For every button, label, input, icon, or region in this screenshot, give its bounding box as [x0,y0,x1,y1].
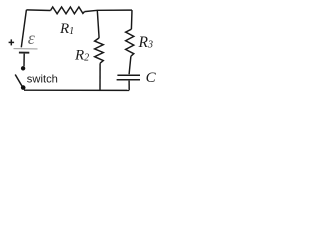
svg-text:C: C [146,70,157,86]
capacitor C top plate [117,74,140,76]
battery EMF short negative plate [19,52,29,54]
wire bottom horizontal [24,89,129,91]
svg-text:switch: switch [27,73,58,85]
node T-junction top (R2 branch tap) [97,10,99,38]
resistor R3 [126,29,134,56]
label + (battery positive sign) [9,39,15,45]
switch top terminal dot [21,66,25,70]
wire top horizontal from R1 to top-right corner [85,10,133,12]
svg-text:ε: ε [28,28,36,48]
resistor R2 [95,38,104,63]
wire capacitor bottom lead [128,81,130,91]
wire battery to switch [23,54,25,67]
resistor R1 [51,7,85,14]
switch blade (open) [15,75,23,89]
wire R3 to capacitor [129,56,131,74]
battery EMF long positive plate [14,48,38,50]
capacitor C bottom plate [117,79,140,81]
wire top-left horizontal lead to R1 [26,9,50,12]
switch bottom terminal dot [21,85,26,90]
wire right vertical from top-right corner to R3 [130,10,133,29]
wire left vertical from top corner down to battery [21,10,26,47]
wire R2 bottom lead [99,63,101,90]
